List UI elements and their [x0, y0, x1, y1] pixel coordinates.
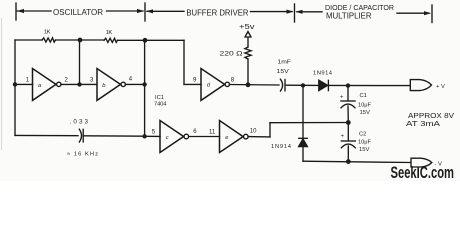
svg-text:BUFFER DRIVER: BUFFER DRIVER	[186, 8, 248, 18]
svg-text:c: c	[166, 135, 169, 141]
svg-text:1K: 1K	[44, 30, 51, 36]
svg-text:OSCILLATOR: OSCILLATOR	[53, 7, 103, 17]
svg-text:15V: 15V	[360, 110, 371, 116]
svg-text:APPROX 8V: APPROX 8V	[408, 113, 454, 120]
svg-text:220 Ω: 220 Ω	[220, 50, 243, 57]
svg-text:15V: 15V	[277, 69, 289, 75]
svg-text:11: 11	[209, 129, 216, 135]
svg-text:AT 3mA: AT 3mA	[406, 121, 440, 128]
svg-text:IC1: IC1	[155, 95, 164, 101]
svg-text:C1: C1	[360, 93, 367, 99]
svg-text:1N914: 1N914	[313, 71, 333, 77]
svg-text:+ V: + V	[436, 84, 445, 90]
svg-text:≈ 16 KHz: ≈ 16 KHz	[67, 152, 98, 158]
svg-text:1N914: 1N914	[271, 144, 292, 150]
svg-text:1K: 1K	[106, 30, 113, 36]
svg-text:C2: C2	[359, 132, 366, 138]
svg-text:7404: 7404	[154, 102, 167, 108]
svg-text:15V: 15V	[359, 147, 370, 153]
svg-text:10: 10	[250, 129, 257, 135]
svg-text:MULTIPLIER: MULTIPLIER	[326, 11, 372, 21]
svg-text:SeekIC.com: SeekIC.com	[391, 164, 455, 181]
svg-text:10μF: 10μF	[358, 140, 371, 146]
svg-text:10μF: 10μF	[358, 103, 371, 109]
svg-text:1mF: 1mF	[278, 60, 292, 66]
svg-text:+5v: +5v	[239, 24, 255, 31]
